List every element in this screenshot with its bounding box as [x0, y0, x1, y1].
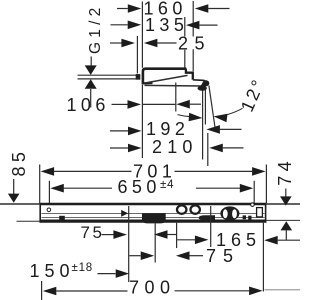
dim 165 right arrow: [264, 236, 278, 245]
dim 12deg right arrow: [214, 114, 228, 123]
svg-text:85: 85: [9, 148, 29, 177]
select button ring 1: [177, 205, 186, 213]
dim 135 right arrow: [186, 21, 200, 30]
svg-text:150: 150: [30, 261, 75, 281]
svg-text:210: 210: [152, 137, 198, 157]
wedge right of handle: [243, 215, 246, 219]
dim 74 leader line: [285, 189, 287, 197]
wire extension line x=193.2 (dim 160 right): [192, 1, 194, 37]
dim 701 left arrow: [41, 167, 55, 176]
pipe inlet top line: [78, 74, 137, 76]
dim 165 line right tail: [278, 239, 300, 241]
right union center line: [176, 223, 178, 248]
svg-text:192: 192: [146, 119, 189, 139]
svg-text:700: 700: [129, 278, 176, 298]
spout center line: [154, 223, 156, 262]
svg-text:±18: ±18: [72, 262, 94, 274]
dim 74 lower stub: [285, 230, 287, 240]
wire extension line x=207.8 (dim 210 right): [207, 133, 209, 166]
spout nose top line: [193, 79, 205, 82]
left union caret arrow: [121, 210, 128, 217]
G1/2 leader upper stub: [90, 57, 92, 67]
svg-text:650: 650: [118, 177, 161, 197]
dim 650 line right: [196, 187, 241, 189]
svg-text:G1/2: G1/2: [87, 4, 104, 54]
spout tongue bottom line: [145, 84, 203, 87]
dim 700 left arrow: [43, 287, 57, 296]
dim 701 ext line left: [39, 165, 41, 204]
spout aerator blob: [198, 86, 207, 91]
wire wall extension line x=137.4 (2.5 gap left line): [136, 36, 138, 74]
bar inner line lower: [42, 217, 265, 219]
dim 106 line right tail: [190, 103, 201, 105]
svg-text:135: 135: [145, 15, 188, 35]
dim 75a left arrow: [113, 230, 127, 239]
wire extension line x=184.8 (dim 135 right): [184, 17, 186, 37]
pipe inlet bottom line: [78, 78, 137, 80]
ext line x=210.7 (dim 165 left): [210, 206, 212, 247]
thermostat handle white slot left: [223, 209, 228, 218]
dim 106 left arrow: [128, 100, 142, 109]
dim 192 left arrow: [128, 127, 142, 136]
small square detail: [248, 216, 251, 220]
dim 75a line right tail: [167, 234, 176, 236]
G1/2 leader lower stub: [90, 89, 92, 108]
dim 650 ext line right: [253, 181, 255, 203]
spout body bottom-left thick segment: [142, 82, 152, 85]
dim 74 up arrow: [281, 221, 293, 230]
bar bottom edge: [40, 220, 267, 223]
dim 210 left arrow: [128, 144, 142, 153]
dim 75b right arrow: [176, 251, 190, 260]
dim 75b left arrow: [141, 251, 155, 260]
bar right edge extension down: [262, 223, 264, 292]
dim 160 left arrow: [128, 4, 142, 13]
dim 701 line left: [54, 170, 132, 172]
svg-text:75: 75: [206, 246, 240, 266]
G1/2 down arrow: [85, 65, 97, 75]
dim 106 line left tail: [112, 103, 128, 105]
dim 160 line left tail: [117, 8, 128, 10]
thermostat handle dark ellipse: [220, 206, 239, 220]
dim 192 right arrow: [206, 125, 220, 134]
lever shape left of handle: [199, 215, 215, 219]
dim 75a line left tail: [102, 234, 114, 236]
dim 75a right arrow: [154, 230, 168, 239]
dim 135 line right tail: [199, 24, 217, 26]
left union center line: [128, 206, 130, 282]
spout step outline: [186, 69, 193, 80]
tiny circle detail: [251, 203, 255, 207]
bar inner line upper: [42, 212, 265, 214]
svg-text:106: 106: [67, 95, 110, 115]
svg-text:75: 75: [81, 223, 105, 242]
dim 650 right arrow: [240, 184, 254, 193]
dim 165 left arrow: [195, 236, 209, 245]
bar right edge: [265, 203, 267, 222]
dim 85 leader line: [13, 179, 15, 195]
dim 135 left arrow: [128, 21, 142, 30]
dim 701 right arrow: [252, 167, 266, 176]
dim 12deg right arc tail: [227, 108, 243, 114]
dim 25 right arrow: [144, 39, 158, 48]
dim 700 line left: [56, 290, 127, 292]
dim 150 line tail: [98, 273, 116, 275]
bar bottom extension line right: [266, 219, 300, 221]
wire 12deg slanted stream line: [209, 86, 216, 131]
dim 210 right arrow: [209, 144, 223, 153]
dim 700 ext line left: [41, 281, 43, 300]
G1/2 up arrow: [85, 79, 97, 89]
dim 160 right arrow: [195, 4, 209, 13]
dim 650 ext line left: [48, 181, 50, 203]
dim 150 arrow: [116, 269, 130, 278]
spout front view dark shape: [142, 213, 166, 223]
wire main wall-plane extension line x=142.4: [141, 2, 143, 68]
dim 192 line right tail: [220, 128, 242, 130]
dim 701 ext line right: [265, 165, 267, 204]
thermostat handle white slot right: [232, 209, 237, 218]
dim 25 line right tail: [157, 42, 176, 44]
dim 650 line left: [64, 187, 112, 189]
dim 106 right arrow: [176, 100, 190, 109]
bar left edge: [39, 203, 41, 222]
spout nose rounded tip: [202, 81, 209, 86]
dim 700 line right: [175, 290, 250, 292]
dim 160 line right tail: [208, 8, 229, 10]
wire water stream line left x=202.6: [202, 90, 204, 160]
wire water stream line right x=205.4: [204, 90, 206, 125]
dim 106 mid line: [143, 103, 175, 105]
dim 12deg left arrow: [189, 113, 203, 122]
dim 12deg left arc tail: [178, 115, 190, 117]
spout underside diagonal: [144, 75, 188, 83]
end cap square: [257, 208, 263, 217]
dim 85 down arrow: [8, 194, 20, 203]
dim 75b line right tail: [189, 255, 203, 257]
dim 25 line left tail: [110, 42, 122, 44]
screw hole circle left: [47, 208, 51, 212]
dim 192 line left tail: [110, 130, 128, 132]
dim 210 line left tail: [110, 147, 128, 149]
dim 700 right arrow: [249, 287, 263, 296]
dim 75b line left tail: [129, 255, 140, 257]
dim 25 left arrow: [121, 39, 134, 48]
small tab on bottom rail: [59, 216, 65, 220]
bar top edge: [40, 203, 267, 206]
svg-text:74: 74: [275, 157, 295, 186]
dim 650 left arrow: [50, 184, 64, 193]
wall line: [0, 203, 300, 205]
bar bottom extension line left: [17, 220, 40, 222]
svg-text:5: 5: [195, 33, 205, 53]
dim 135 line left tail: [111, 24, 128, 26]
svg-text:2: 2: [178, 33, 188, 53]
dim 165 line left tail: [177, 239, 195, 241]
spout body back+top outline: [143, 69, 186, 85]
dim 701 line right: [175, 170, 253, 172]
wire extension line x=175.8 (dim 106 right): [175, 83, 177, 112]
svg-text:±4: ±4: [160, 179, 174, 191]
pipe wall fitting nub: [136, 74, 141, 80]
dim 700 faint right extension: [265, 289, 301, 291]
select button ring 2: [191, 205, 200, 213]
dim 74 down arrow: [280, 196, 292, 205]
dim 210 line right tail: [223, 147, 244, 149]
